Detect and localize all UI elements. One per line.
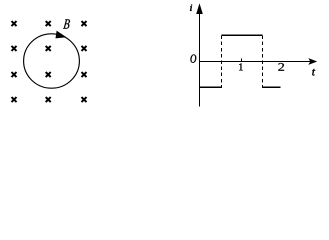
label B — [63, 19, 70, 28]
B direction arrowhead on loop — [56, 31, 67, 39]
current waveform: negative segment 1.5 to 2 — [263, 86, 281, 88]
current waveform: positive pulse top 0.5 to 1.5 — [222, 34, 263, 36]
label O (origin) — [191, 54, 197, 62]
tick at t=1 — [241, 58, 243, 61]
dashed transition at t=1.5 — [262, 36, 264, 89]
field region x marks (B into page) — [12, 21, 87, 102]
t axis (horizontal) — [200, 61, 311, 63]
dashed transition at t=0.5 — [221, 36, 223, 89]
t axis arrowhead — [308, 58, 317, 65]
i axis arrowhead — [196, 3, 203, 14]
current waveform: negative segment 0 to 0.5 — [200, 86, 222, 88]
label i — [190, 5, 192, 11]
label 1 — [239, 63, 243, 70]
i axis (vertical) — [199, 10, 201, 107]
label 2 — [278, 63, 284, 71]
label t — [312, 69, 315, 76]
conducting circular loop — [24, 34, 80, 88]
